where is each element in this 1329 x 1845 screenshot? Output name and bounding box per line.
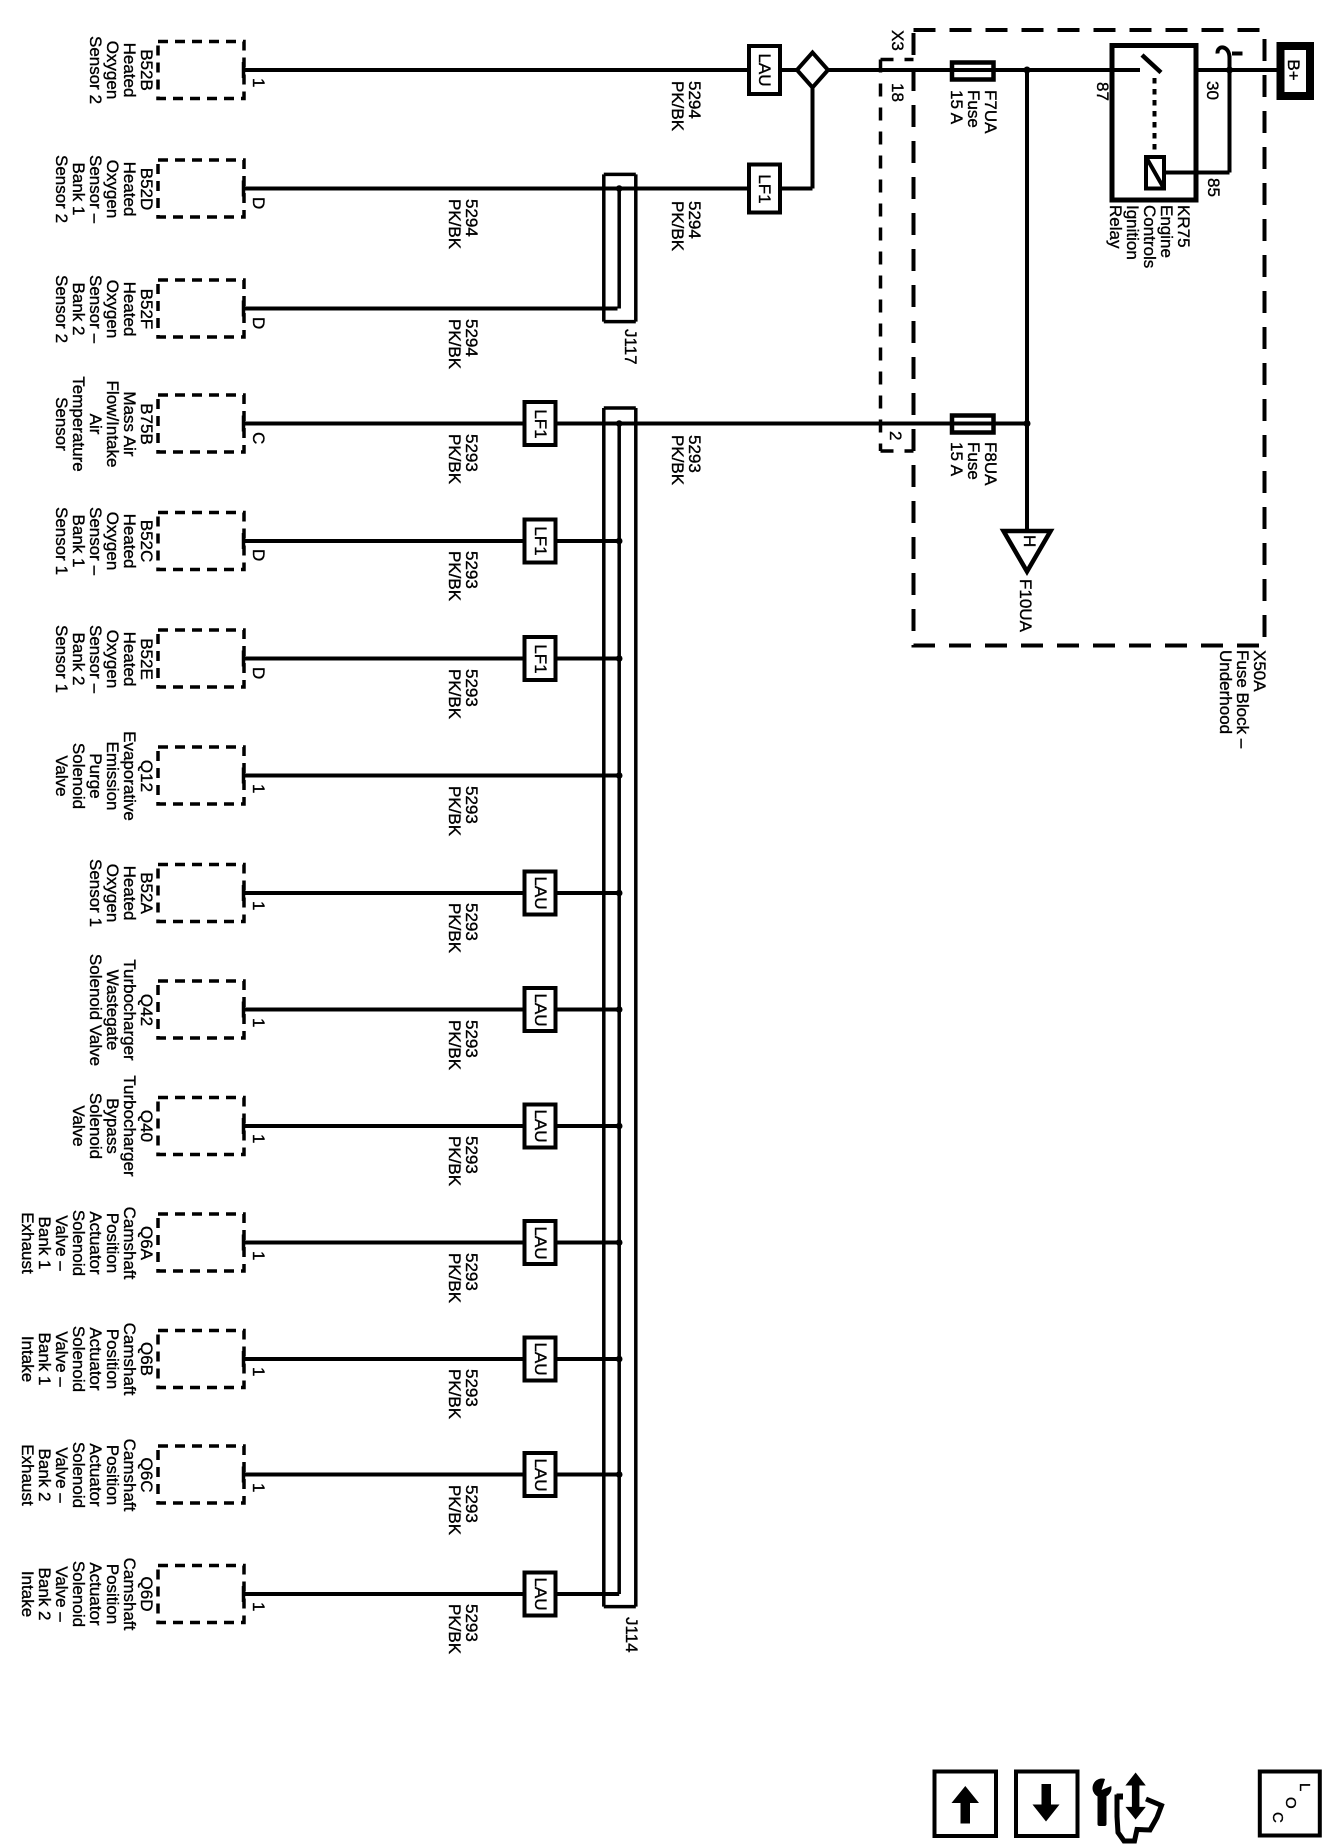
J117 bottom cap	[604, 320, 636, 324]
wire label 5293 PK/BK (wire B52E)	[446, 669, 480, 719]
Q12 pin tick	[242, 768, 246, 784]
down arrowhead	[1125, 1807, 1145, 1820]
Q12 pin label 1	[250, 784, 267, 793]
splice diamond	[797, 53, 828, 88]
wire label 5294 PK/BK (wire B52B)	[669, 81, 703, 131]
junction dot bus/wire1	[1024, 67, 1031, 74]
label X50A Fuse Block - Underhood	[1217, 650, 1268, 748]
LOC letter O	[1283, 1797, 1298, 1809]
wire label 5293 PK/BK (wire Q40)	[446, 1136, 480, 1186]
jagged region notch	[1117, 1794, 1124, 1800]
label B52E	[53, 624, 155, 692]
label B52D	[53, 154, 155, 222]
J117 junction dot	[616, 185, 623, 192]
J114 right side	[634, 408, 638, 1607]
B75B pin label C	[250, 432, 267, 444]
connector Q42 (dashed box)	[158, 981, 244, 1038]
J114 bottom cap	[604, 1605, 636, 1609]
label Q12	[53, 731, 155, 821]
label F7UA Fuse 15 A	[948, 90, 999, 133]
LAU text	[532, 1577, 549, 1610]
Q6C pin tick	[242, 1467, 246, 1483]
relay coil diagonal	[1146, 157, 1164, 189]
label Q6D	[19, 1558, 155, 1631]
label B75B	[53, 376, 155, 471]
connector Q12 (dashed box)	[158, 747, 244, 804]
down arrow	[1033, 1784, 1060, 1822]
hook tick	[1232, 52, 1243, 56]
Q42 pin label 1	[250, 1018, 267, 1027]
X3 pin 18	[889, 83, 906, 102]
in-line connector LF1 (wire B75B)	[525, 402, 556, 445]
icon box LOC	[1260, 1772, 1320, 1836]
relay switch blade	[1142, 55, 1161, 73]
B52C pin label D	[250, 549, 267, 561]
label KR75 Engine Controls Ignition Relay	[1107, 205, 1192, 268]
Q6B pin tick	[242, 1351, 246, 1367]
jagged region outline	[1117, 1795, 1162, 1842]
J114 junction dot wire Q42	[616, 1006, 623, 1013]
wire label 5293 PK/BK (wire Q12)	[446, 786, 480, 836]
LAU text	[532, 1109, 549, 1142]
wire label 5293 PK/BK (wire Q6A)	[446, 1253, 480, 1303]
J114 junction dot wire B75B	[616, 420, 623, 427]
connector Q40 (dashed box)	[158, 1098, 244, 1155]
fuse F7UA 15 A	[952, 63, 994, 80]
B52F pin tick	[242, 301, 246, 317]
wire B75B 5293 PK/BK to F8UA bus	[244, 422, 1027, 426]
in-line connector LAU (wire Q6C)	[525, 1453, 556, 1496]
wire label 5293 PK/BK (wire Q6D)	[446, 1604, 480, 1654]
connector B52B (dashed box)	[158, 42, 244, 99]
label F8UA Fuse 15 A	[948, 442, 999, 485]
Q6C pin label 1	[250, 1483, 267, 1492]
wire relay 30 to B+	[1196, 68, 1277, 72]
wire B52E 5293 PK/BK to J114	[244, 657, 619, 661]
splice pack J114 left side	[602, 408, 606, 1607]
hook riser	[1228, 56, 1232, 70]
wire B52C 5293 PK/BK to J114	[244, 539, 619, 543]
wire label 5293 PK/BK (wire Q6C)	[446, 1485, 480, 1535]
LF1 text	[532, 526, 549, 555]
wire B52D 5294 PK/BK	[244, 187, 749, 191]
label Q6C	[19, 1438, 155, 1511]
in-line connector LAU (wire Q6B)	[525, 1338, 556, 1381]
label H	[1021, 535, 1038, 547]
J114 top cap	[604, 406, 636, 410]
wire B52F 5294 PK/BK to J117	[244, 307, 618, 311]
pin 30	[1204, 81, 1221, 100]
B+ box outer	[1277, 42, 1315, 100]
B52B pin label 1	[250, 78, 267, 87]
connector B75B (dashed box)	[158, 395, 244, 452]
up/down arrow shaft	[1132, 1784, 1140, 1809]
wrench jaw notch	[1102, 1775, 1117, 1791]
label B52F	[53, 274, 155, 342]
wire label 5293 PK/BK (wire Q6B)	[446, 1369, 480, 1419]
J114 junction dot wire Q6A	[616, 1239, 623, 1246]
wire diamond to relay 87	[828, 68, 1140, 72]
up arrowhead	[1125, 1773, 1145, 1786]
Q6A pin label 1	[250, 1251, 267, 1260]
label B+	[1285, 59, 1302, 80]
LAU text	[532, 876, 549, 909]
label Q6A	[19, 1206, 155, 1279]
J114 junction dot wire Q6B	[616, 1356, 623, 1363]
label F10UA	[1017, 579, 1034, 632]
label X3	[889, 30, 906, 51]
in-line connector LAU (wire Q40)	[525, 1105, 556, 1148]
J114 junction dot wire Q6C	[616, 1471, 623, 1478]
junction dot B+ node	[1226, 67, 1233, 74]
LAU text	[756, 53, 773, 86]
Q6A pin tick	[242, 1235, 246, 1251]
splice pack J117 left side	[602, 174, 606, 321]
label Q40	[70, 1075, 155, 1176]
Q42 pin tick	[242, 1002, 246, 1018]
LAU text	[532, 1458, 549, 1491]
J117 right side	[634, 174, 638, 321]
J114 junction dot wire Q12	[616, 772, 623, 779]
J114 junction dot wire Q40	[616, 1123, 623, 1130]
J117 bus bar	[617, 189, 621, 309]
in-line connector LAU (wire Q6D)	[525, 1573, 556, 1616]
B52C pin tick	[242, 533, 246, 549]
fuse F8UA 15 A	[952, 416, 994, 433]
Q6D pin tick	[242, 1586, 246, 1602]
LF1 text	[532, 644, 549, 673]
wire B52B 5294 PK/BK (left of LAU)	[244, 68, 749, 72]
connector B52E (dashed box)	[158, 630, 244, 687]
X3 top cap	[881, 58, 914, 62]
X3 pin 2	[887, 431, 904, 440]
icon box up-arrow	[935, 1772, 997, 1837]
label B52B	[87, 36, 155, 104]
wire label 5293 PK/BK (wire Q42)	[446, 1020, 480, 1070]
bus F7UA/F8UA to F10UA	[1025, 70, 1029, 531]
B75B pin tick	[242, 416, 246, 432]
in-line connector LF1 (wire B52E)	[525, 637, 556, 680]
wrench handle	[1098, 1795, 1107, 1826]
LAU text	[532, 993, 549, 1026]
LOC letter C	[1270, 1812, 1285, 1823]
connector B52D (dashed box)	[158, 160, 244, 217]
B52E pin tick	[242, 651, 246, 667]
label B52C	[53, 507, 155, 575]
wire label 5294 PK/BK (after J117)	[669, 201, 703, 251]
B52A pin tick	[242, 885, 246, 901]
relay coil 85 line	[1164, 171, 1230, 175]
in-line connector LAU (wire Q42)	[525, 988, 556, 1031]
pin 85	[1205, 178, 1222, 197]
J114 junction dot wire B52E	[616, 655, 623, 662]
label J117	[622, 329, 639, 365]
pin 87	[1094, 82, 1111, 101]
wire label 5293 PK/BK (after J114)	[669, 435, 703, 485]
in-line connector LAU (wire B52A)	[525, 872, 556, 915]
relay KR75 box	[1112, 46, 1196, 201]
wire B52A 5293 PK/BK to J114	[244, 891, 619, 895]
LF1 text	[756, 174, 773, 203]
label Q42	[87, 953, 155, 1065]
B52B pin tick	[242, 62, 246, 78]
riser to diamond	[811, 88, 815, 189]
connector Q6D (dashed box)	[158, 1566, 244, 1623]
LOC letter L	[1297, 1783, 1312, 1791]
LAU text	[532, 1342, 549, 1375]
label Q6B	[19, 1323, 155, 1396]
connector Q6B (dashed box)	[158, 1331, 244, 1388]
B52E pin label D	[250, 667, 267, 679]
J114 junction dot wire B52A	[616, 890, 623, 897]
B52F pin label D	[250, 317, 267, 329]
up arrow	[952, 1786, 980, 1824]
Q40 pin tick	[242, 1118, 246, 1134]
B52A pin label 1	[250, 901, 267, 910]
Q6B pin label 1	[250, 1367, 267, 1376]
junction dot bus/wire4	[1024, 420, 1031, 427]
wire Q6C 5293 PK/BK to J114	[244, 1473, 619, 1477]
J114 bus bar	[617, 424, 621, 1595]
wire label 5293 PK/BK (wire B52C)	[446, 551, 480, 601]
J117 top cap	[604, 173, 636, 177]
wire LF1 to riser	[780, 187, 813, 191]
wire Q6B 5293 PK/BK to J114	[244, 1357, 619, 1361]
line 85 up to B+ node	[1228, 70, 1232, 173]
connector Q6C (dashed box)	[158, 1446, 244, 1503]
wire label 5294 PK/BK (wire B52D)	[446, 199, 480, 249]
LF1 text	[532, 409, 549, 438]
Q40 pin label 1	[250, 1134, 267, 1143]
LAU text	[532, 1226, 549, 1259]
connector Q6A (dashed box)	[158, 1214, 244, 1271]
wire label 5294 PK/BK (wire B52F)	[446, 319, 480, 369]
wire label 5293 PK/BK (wire B75B)	[446, 434, 480, 484]
in-line connector LF1 (wire B52D)	[749, 165, 780, 213]
wire Q40 5293 PK/BK to J114	[244, 1124, 619, 1128]
relay coil box	[1146, 157, 1164, 189]
Q6D pin label 1	[250, 1602, 267, 1611]
X50A Fuse Block - Underhood (dashed box)	[914, 30, 1265, 646]
B+ hook symbol	[1217, 47, 1229, 58]
connector X3 left side (dashed)	[879, 60, 883, 452]
label J114	[623, 1617, 640, 1653]
B+ box inner	[1285, 50, 1307, 92]
wire Q42 5293 PK/BK to J114	[244, 1008, 619, 1012]
wire label 5293 PK/BK (wire B52A)	[446, 903, 480, 953]
connector B52A (dashed box)	[158, 865, 244, 922]
relay actuation dashed link	[1153, 78, 1157, 157]
J114 junction dot wire B52C	[616, 538, 623, 545]
connector B52C (dashed box)	[158, 513, 244, 570]
wire Q12 5293 PK/BK to J114	[244, 774, 619, 778]
X3 bottom cap	[881, 449, 914, 453]
connector B52F (dashed box)	[158, 280, 244, 337]
in-line connector LF1 (wire B52C)	[525, 520, 556, 563]
icon box down-arrow	[1016, 1772, 1078, 1837]
fusible link H (F10UA) triangle	[1004, 531, 1051, 572]
B52D pin label D	[250, 197, 267, 209]
wire Q6A 5293 PK/BK to J114	[244, 1241, 619, 1245]
wire Q6D 5293 PK/BK to J114	[244, 1592, 619, 1596]
label B52A	[87, 859, 155, 927]
B52D pin tick	[242, 181, 246, 197]
wire LAU to splice diamond	[780, 68, 797, 72]
wrench head	[1093, 1779, 1112, 1798]
in-line connector LAU (wire Q6A)	[525, 1221, 556, 1264]
in-line connector LAU (wire B52B)	[749, 46, 780, 94]
